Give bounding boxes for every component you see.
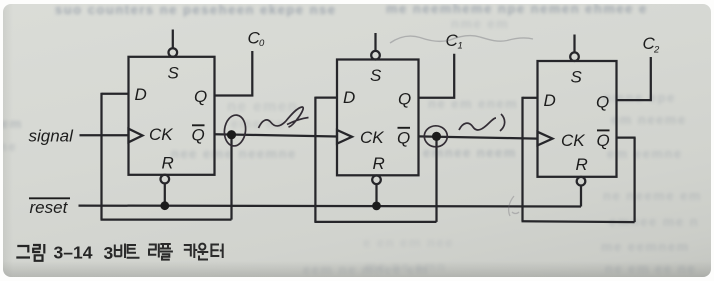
U1 feedback bottom wire [101,218,232,220]
U1 R bubble [161,175,170,184]
U2 S bubble [371,51,380,60]
U2 feedback right wire [435,136,437,222]
pen annotation: ellipse around node 2 [424,126,447,147]
U3 S tie-high wire [573,35,575,53]
U1 Qbar overline [192,124,205,126]
svg-text:CK: CK [561,131,585,150]
svg-text:R: R [373,154,385,173]
svg-text:reset: reset [30,198,69,217]
U2 CK clock wedge [337,130,352,144]
운 [199,244,205,250]
flip-flop U2 box [337,60,419,176]
U3 S bubble [570,52,579,61]
플 [160,244,173,260]
svg-text:CK: CK [360,128,384,147]
U1 S bubble [169,48,178,57]
U3 feedback bottom wire [522,220,635,223]
svg-text:3–14: 3–14 [54,243,93,263]
node junction U1 reset [160,201,169,210]
U2 Qbar to U3 CK wire [419,136,538,138]
림 [33,244,44,261]
U2 Q output wire [419,54,455,98]
svg-text:Q: Q [398,90,411,109]
그 [16,246,30,258]
U3 Qbar overline [597,129,610,131]
svg-text:R: R [162,153,174,172]
svg-text:Q: Q [192,126,205,145]
svg-text:Q: Q [597,131,610,150]
svg-text:3: 3 [104,243,114,263]
U2 R to reset wire [375,184,377,206]
node junction U1 Qbar [227,130,236,139]
svg-text:D: D [343,88,355,107]
svg-text:2: 2 [653,45,660,56]
U2 Qbar overline [398,127,411,129]
signal input wire [80,134,129,136]
U1 S tie-high wire [172,30,174,49]
터 [211,244,222,259]
node junction U2 reset [372,202,381,211]
caption figure number 그림 3-14 (Korean drawn as strokes) [16,244,44,261]
U1 Qbar to U2 CK wire [215,134,338,136]
U2 D input wire [315,96,337,98]
svg-text:D: D [135,85,147,104]
U1 Q output wire [215,51,253,96]
U1 CK clock wedge [129,129,143,143]
U2 feedback left wire [314,97,316,222]
flip-flop U3 box [538,61,617,177]
U3 CK clock wedge [538,132,553,146]
reset bus wire [79,204,582,207]
bleed-through text from reverse page [55,2,336,17]
U2 feedback bottom wire [314,221,436,223]
U3 D input wire [523,97,538,99]
U3 Q output wire [617,57,651,100]
U1 feedback right wire [230,135,232,220]
svg-text:Q: Q [397,128,410,147]
U2 R bubble [372,176,381,185]
svg-text:D: D [544,91,556,110]
트 [127,245,140,258]
U2 S tie-high wire [374,33,376,51]
pen annotation: squiggle arrow 1 [259,107,309,128]
U1 feedback left wire [100,93,102,220]
svg-text:signal: signal [29,127,75,146]
svg-text:0: 0 [259,38,265,49]
svg-text:Q: Q [194,87,207,106]
svg-text:S: S [571,68,583,87]
U3 Qbar stub wire [617,136,636,138]
U3 R bubble [577,177,586,186]
비 [115,244,125,259]
node junction U2 Qbar [432,132,441,141]
pencil wavy line top [390,36,533,43]
pencil stray mark bottom [509,196,519,216]
U1 D input wire [102,93,129,95]
pen annotation: ellipse around node 1 [223,107,505,147]
svg-text:S: S [168,64,180,83]
svg-text:1: 1 [458,41,463,52]
U3 feedback left wire [521,97,523,222]
reset overline [29,197,70,199]
U3 feedback right wire [633,138,635,223]
svg-text:CK: CK [149,125,173,144]
svg-text:Q: Q [596,92,609,111]
U3 R to reset wire [580,186,582,207]
카 [184,244,198,259]
caption title 3비트 리플 카운터 (Korean drawn as strokes) [115,244,223,260]
svg-text:S: S [370,66,382,85]
flip-flop U1 box [129,57,215,175]
리 [149,244,159,258]
pen annotation: squiggle arrow 2 [459,114,505,131]
svg-text:R: R [576,155,588,174]
U1 R to reset wire [164,183,166,205]
